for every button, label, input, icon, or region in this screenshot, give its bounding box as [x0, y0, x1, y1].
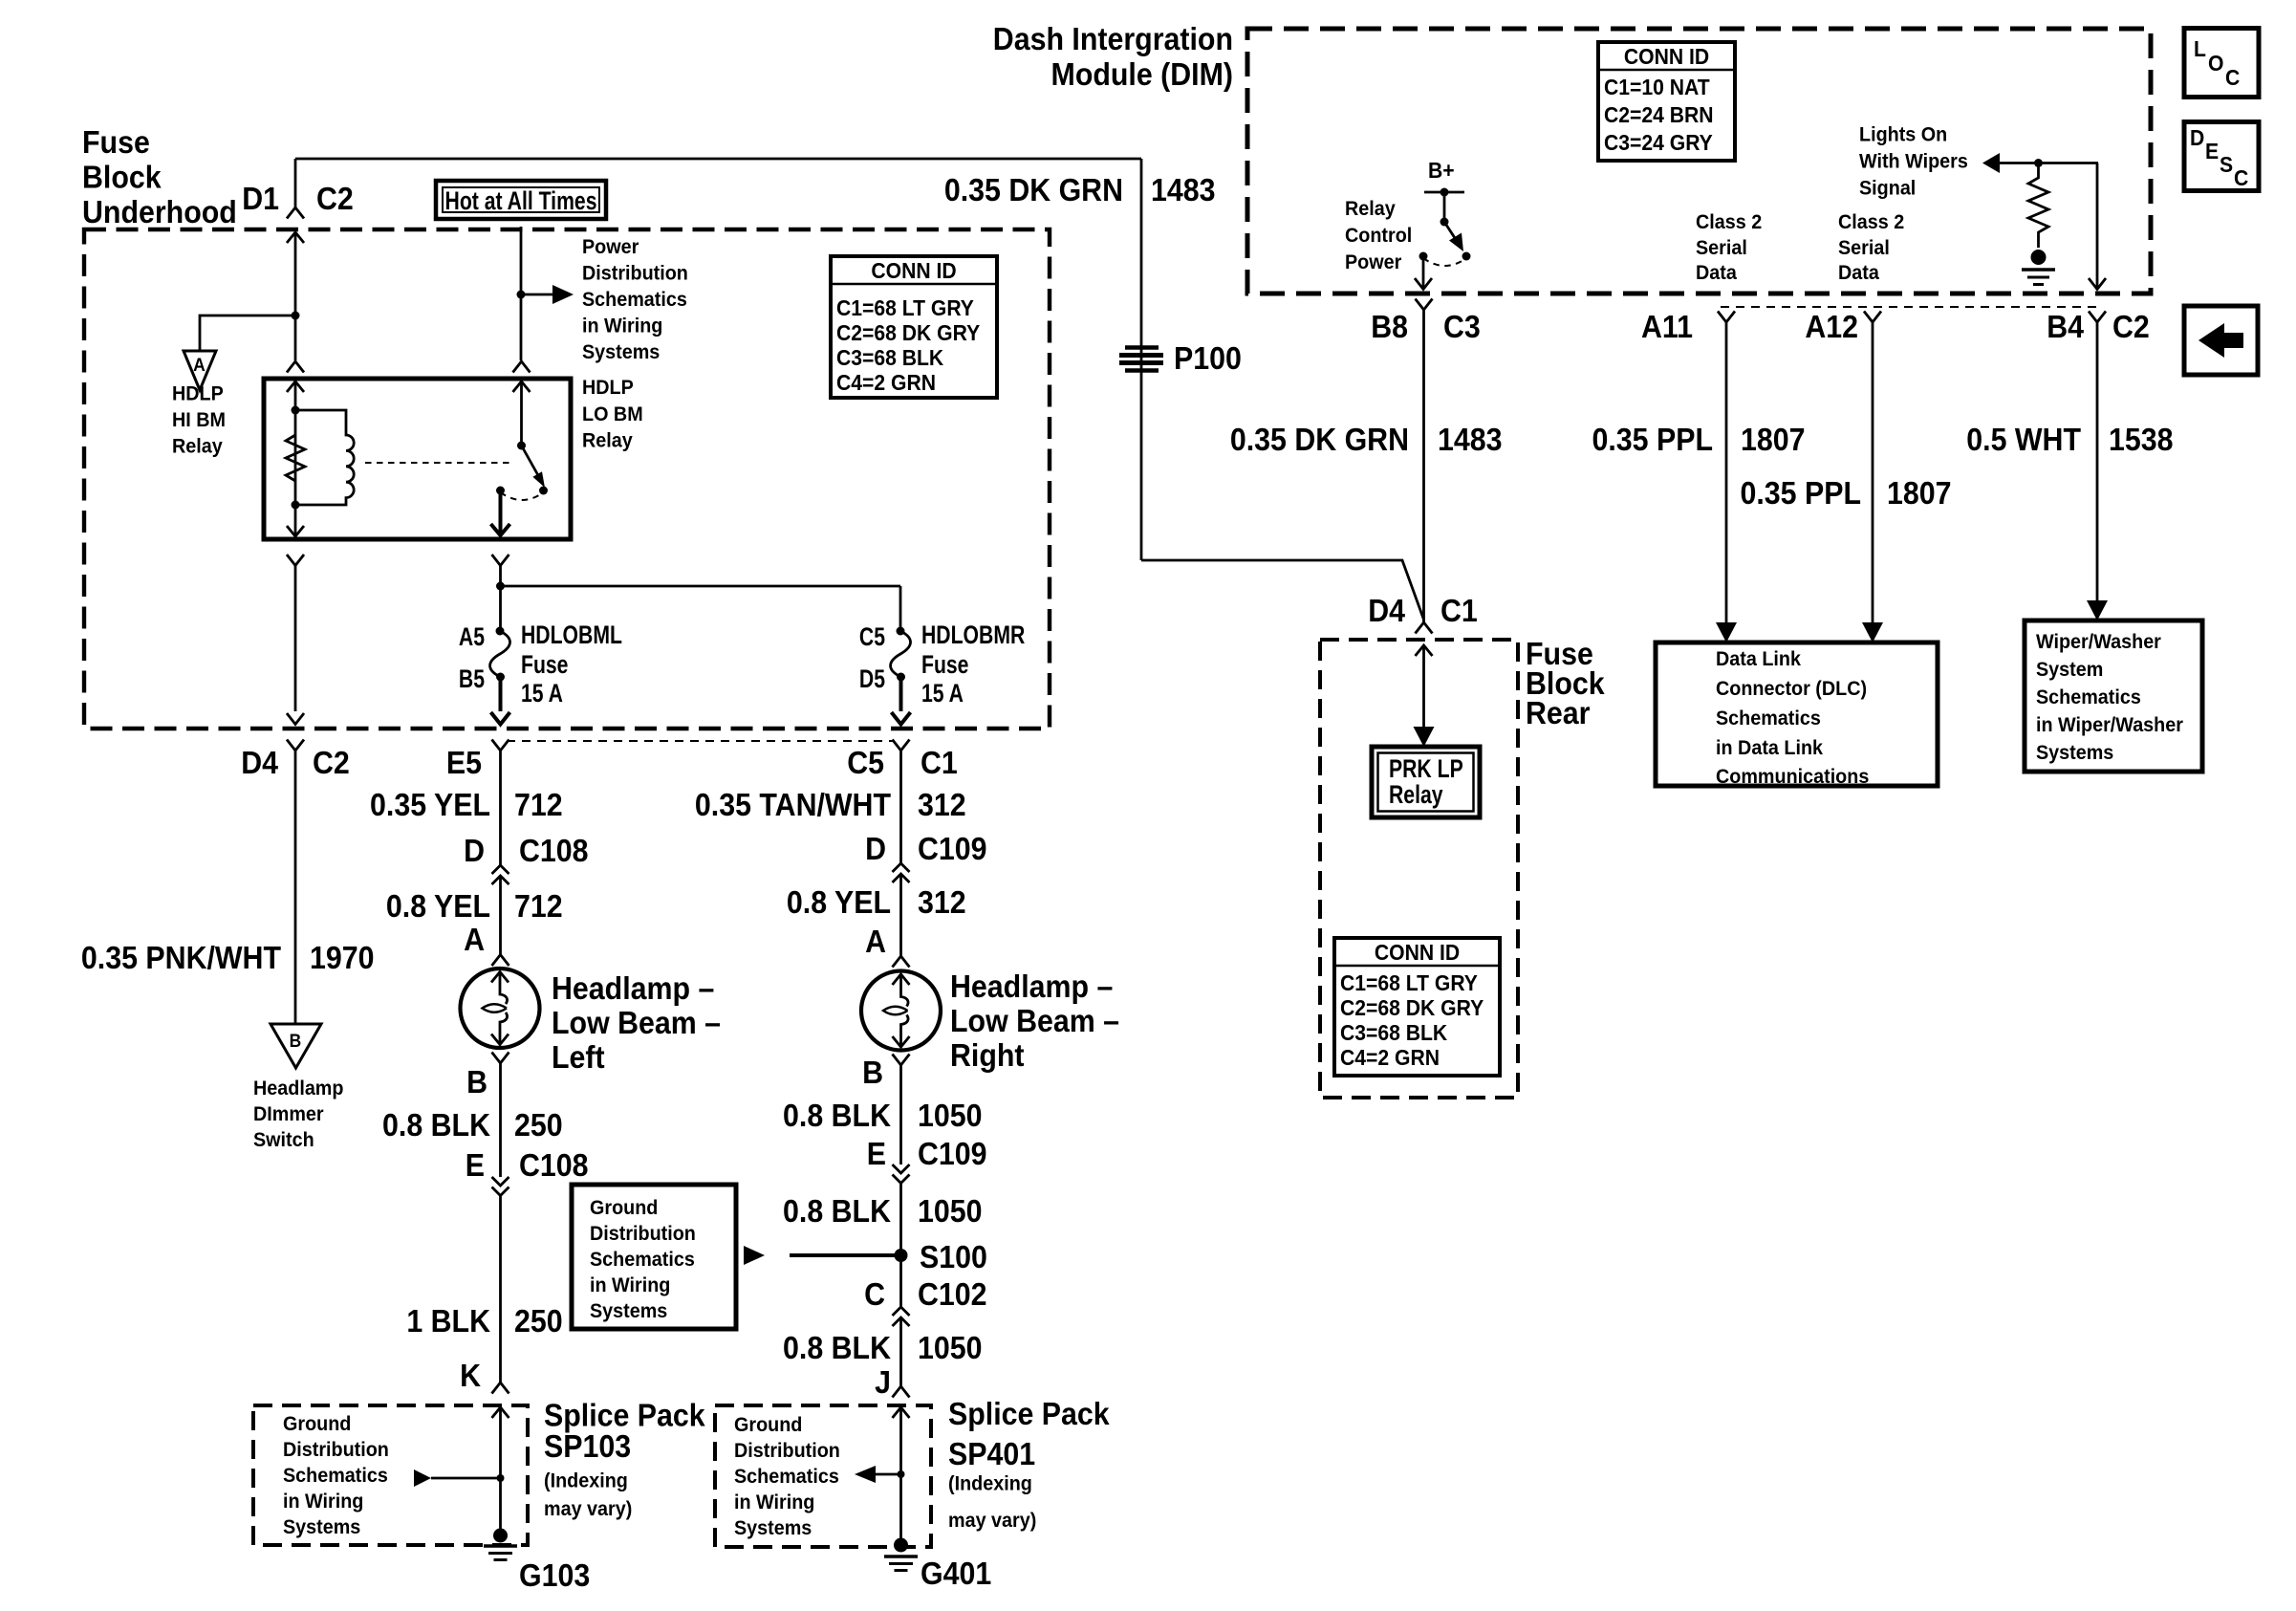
pin label C3 — [1443, 309, 1481, 344]
dashed linkage relay — [365, 462, 514, 464]
svg-text:Schematics: Schematics — [582, 288, 687, 311]
svg-text:1050: 1050 — [918, 1330, 983, 1365]
svg-text:0.8 BLK: 0.8 BLK — [783, 1098, 891, 1133]
svg-text:Serial: Serial — [1696, 236, 1747, 259]
pin label B left lamp — [466, 1064, 487, 1099]
svg-text:D5: D5 — [859, 665, 885, 694]
pin label C1 bottom — [921, 745, 958, 780]
svg-text:C1=10 NAT: C1=10 NAT — [1604, 75, 1710, 99]
pin label A11 — [1641, 309, 1693, 344]
svg-text:B8: B8 — [1371, 309, 1408, 344]
chevron below relay output — [492, 555, 509, 566]
arrow exit B4 — [2089, 278, 2106, 290]
svg-text:Splice Pack: Splice Pack — [948, 1396, 1110, 1431]
svg-text:Distribution: Distribution — [582, 262, 688, 285]
svg-text:1050: 1050 — [918, 1193, 983, 1229]
svg-text:Fuse: Fuse — [921, 651, 968, 680]
label G103 — [519, 1557, 590, 1593]
svg-text:1807: 1807 — [1741, 422, 1806, 457]
svg-text:C102: C102 — [918, 1276, 987, 1312]
svg-text:C1=68 LT GRY: C1=68 LT GRY — [836, 295, 974, 320]
pin label C2 — [316, 181, 354, 216]
svg-text:Right: Right — [950, 1037, 1025, 1073]
arrow exit C5 — [892, 712, 911, 725]
svg-text:Distribution: Distribution — [734, 1439, 840, 1462]
wire SP103 internal — [499, 1407, 502, 1535]
svg-text:1050: 1050 — [918, 1098, 983, 1133]
svg-text:in Wiring: in Wiring — [582, 315, 662, 337]
svg-text:1807: 1807 — [1887, 475, 1952, 511]
pin label E left — [466, 1147, 485, 1183]
svg-text:D4: D4 — [241, 745, 278, 780]
svg-text:Schematics: Schematics — [283, 1464, 388, 1487]
connector line C1 thin dashed — [507, 740, 895, 742]
svg-text:K: K — [460, 1358, 481, 1393]
svg-text:Fuse: Fuse — [521, 651, 568, 680]
Hot at All Times box — [436, 181, 606, 219]
svg-text:Ground: Ground — [734, 1413, 802, 1436]
wire P100 vertical — [1140, 159, 1143, 560]
svg-text:A12: A12 — [1805, 309, 1858, 344]
svg-text:C109: C109 — [918, 1136, 987, 1171]
arrow ground distribution SP401 — [855, 1466, 901, 1483]
svg-text:Relay: Relay — [1389, 781, 1443, 810]
svg-text:Lights On: Lights On — [1859, 123, 1947, 146]
resistor wiper signal — [2028, 163, 2048, 249]
junction dot relay top — [292, 406, 300, 415]
triangle ref B — [271, 1024, 321, 1068]
svg-text:E: E — [466, 1147, 485, 1183]
svg-text:Distribution: Distribution — [283, 1438, 389, 1461]
svg-text:250: 250 — [514, 1107, 563, 1143]
svg-text:HDLP: HDLP — [172, 382, 224, 405]
headlamp low beam right — [861, 971, 941, 1051]
svg-text:C2: C2 — [2112, 309, 2150, 344]
label 0.35 PNK/WHT 1970 — [81, 940, 375, 975]
svg-text:0.8 BLK: 0.8 BLK — [382, 1107, 490, 1143]
svg-text:Low Beam –: Low Beam – — [552, 1005, 721, 1040]
svg-text:CONN ID: CONN ID — [1624, 44, 1709, 69]
svg-text:Power: Power — [1345, 250, 1401, 273]
junction dot SP401 — [898, 1470, 905, 1478]
label 0.8 BLK 1050 first — [783, 1098, 982, 1133]
pin label A12 — [1805, 309, 1858, 344]
pin label C5 bottom — [847, 745, 884, 780]
pass-through P100 — [1119, 348, 1163, 371]
svg-text:E: E — [867, 1136, 886, 1171]
svg-text:Module (DIM): Module (DIM) — [1051, 56, 1233, 92]
svg-text:in Wiring: in Wiring — [734, 1491, 814, 1513]
label P100 — [1174, 340, 1242, 376]
label Ground Distribution SP103 — [283, 1412, 389, 1538]
junction dot relay bottom — [292, 501, 300, 510]
svg-text:HDLOBML: HDLOBML — [521, 621, 622, 650]
connector C108 double chevron up — [492, 865, 509, 884]
Dash Integration Module dashed box — [1247, 29, 2151, 294]
svg-text:Serial: Serial — [1838, 236, 1890, 259]
arrow relay output — [491, 524, 510, 535]
wire to power distribution arrow — [521, 294, 552, 296]
svg-text:Schematics: Schematics — [1716, 707, 1821, 729]
wire below right fuse — [899, 677, 903, 711]
arrow relay switch pin — [513, 381, 531, 392]
svg-text:Ground: Ground — [590, 1196, 658, 1219]
label 0.35 PPL 1807 A11 — [1592, 422, 1806, 457]
box left arrow — [2184, 306, 2258, 375]
connector chevron B8/C3 — [1416, 299, 1433, 311]
relay contact dot left — [496, 487, 505, 495]
wire P100 to D4/C1 — [1141, 560, 1424, 620]
svg-text:Left: Left — [552, 1039, 605, 1075]
label 0.5 WHT 1538 — [1966, 422, 2173, 457]
svg-text:Power: Power — [582, 235, 639, 258]
connector chevron B4/C2 — [2089, 312, 2106, 323]
svg-text:C1: C1 — [921, 745, 958, 780]
headlamp low beam left — [461, 969, 540, 1048]
wire C108 to splice SP103 — [499, 1196, 502, 1383]
wire SP401 internal — [899, 1407, 902, 1545]
label S100 — [920, 1239, 987, 1274]
arrow exit B8 — [1415, 278, 1432, 290]
label Fuse Block Rear — [1526, 636, 1605, 730]
svg-text:P100: P100 — [1174, 340, 1242, 376]
pin label D left — [464, 833, 485, 868]
wire C102 to splice SP401 — [899, 1317, 902, 1386]
svg-text:C3=68 BLK: C3=68 BLK — [836, 345, 943, 370]
svg-text:1483: 1483 — [1438, 422, 1503, 457]
svg-text:C2: C2 — [316, 181, 354, 216]
label 0.35 PPL 1807 A12 — [1741, 475, 1952, 511]
connector label C108 upper — [519, 833, 589, 868]
label Lights On With Wipers Signal — [1859, 123, 1968, 200]
relay control switch stem — [1440, 192, 1449, 227]
box PRK LP Relay — [1372, 747, 1480, 817]
label G401 — [921, 1556, 991, 1591]
wire relay output to fuses — [499, 566, 502, 631]
svg-text:SP103: SP103 — [544, 1428, 631, 1464]
svg-text:Hot at All Times: Hot at All Times — [445, 187, 597, 216]
junction dot wiper signal — [2034, 159, 2043, 167]
pin label B4 — [2047, 309, 2084, 344]
svg-text:Low Beam –: Low Beam – — [950, 1003, 1119, 1038]
connector line DLC thin dashed — [1721, 306, 2097, 308]
svg-text:Fuse: Fuse — [82, 124, 150, 160]
connector label C109 lower — [918, 1136, 987, 1171]
svg-text:E: E — [2205, 139, 2219, 163]
relay coil-side vertical wire — [294, 381, 297, 535]
arrow ground distribution SP103 — [414, 1469, 501, 1487]
wire to PRK LP relay — [1414, 645, 1435, 747]
svg-text:in Data Link: in Data Link — [1716, 736, 1824, 759]
svg-text:15 A: 15 A — [921, 680, 964, 708]
svg-text:B4: B4 — [2047, 309, 2084, 344]
wire C108 to lamp — [499, 876, 502, 954]
svg-text:E5: E5 — [446, 745, 482, 780]
chevron above relay switch pin — [513, 361, 531, 373]
svg-text:Switch: Switch — [253, 1128, 314, 1151]
pin label K — [460, 1358, 481, 1393]
svg-text:C2=68 DK GRY: C2=68 DK GRY — [836, 320, 980, 345]
CONN ID table fuse block rear — [1334, 938, 1500, 1076]
CONN ID table fuse block underhood — [831, 256, 997, 398]
label HDLOBML Fuse 15 A — [521, 621, 622, 708]
svg-text:Data: Data — [1838, 261, 1879, 284]
wire from Hot at All Times to relay — [520, 227, 523, 360]
svg-text:SP401: SP401 — [948, 1436, 1035, 1471]
wire D4 to triangle B — [294, 751, 297, 1024]
svg-text:D: D — [865, 831, 886, 866]
connector chevron E5 — [492, 740, 509, 751]
svg-text:C5: C5 — [847, 745, 884, 780]
label Power Distribution Schematics in Wiring Systems — [582, 235, 688, 363]
box LOC — [2184, 29, 2259, 98]
svg-text:Distribution: Distribution — [590, 1222, 696, 1245]
arrow into fuse block at D1 — [287, 232, 304, 243]
ground G401 — [884, 1538, 918, 1571]
box Wiper/Washer Systems — [2025, 620, 2202, 772]
svg-text:712: 712 — [514, 787, 563, 822]
svg-text:0.35 PPL: 0.35 PPL — [1741, 475, 1861, 511]
svg-text:HDLP: HDLP — [582, 376, 634, 399]
label Headlamp Low Beam Right — [950, 969, 1119, 1073]
svg-text:in Wiper/Washer: in Wiper/Washer — [2036, 713, 2183, 736]
connector chevron D4/C1 — [1416, 622, 1433, 634]
label Relay Control Power — [1345, 197, 1412, 273]
svg-text:System: System — [2036, 658, 2103, 681]
svg-text:S100: S100 — [920, 1239, 987, 1274]
svg-text:C3=24 GRY: C3=24 GRY — [1604, 130, 1713, 155]
svg-text:L: L — [2194, 36, 2206, 61]
relay HDLP LO BM box — [264, 379, 571, 539]
ground G103 — [484, 1529, 517, 1560]
svg-text:A: A — [464, 922, 485, 957]
pin label D5 — [859, 665, 885, 694]
svg-text:J: J — [875, 1364, 891, 1400]
svg-text:1 BLK: 1 BLK — [406, 1303, 490, 1339]
wire B4 inside DIM — [2096, 163, 2099, 289]
label Headlamp Low Beam Left — [552, 970, 721, 1075]
chevron above relay coil pin — [287, 361, 304, 373]
label B+ — [1428, 158, 1455, 183]
wire lamp right to C109 — [899, 1065, 902, 1165]
svg-text:Schematics: Schematics — [734, 1465, 839, 1488]
dashed throw arc relay — [501, 492, 544, 500]
svg-text:1483: 1483 — [1151, 172, 1216, 207]
pin label B right lamp — [862, 1055, 883, 1090]
fuse HDLOBML — [490, 627, 510, 682]
pin label D1 — [242, 181, 279, 216]
label 0.8 BLK 1050 third — [783, 1330, 982, 1365]
wire to triangle A — [200, 316, 295, 351]
svg-text:Systems: Systems — [734, 1516, 812, 1539]
wire D1 to relay — [294, 233, 297, 360]
arrow exit D4 — [287, 713, 304, 725]
junction dot HI BM branch — [292, 312, 300, 320]
arrow ground distribution S100 — [744, 1246, 901, 1265]
svg-text:Data: Data — [1696, 261, 1737, 284]
connector C102 double chevron up — [893, 1307, 910, 1326]
wire A11 — [1716, 322, 1737, 642]
svg-text:Systems: Systems — [2036, 741, 2113, 764]
fuse HDLOBMR — [891, 627, 911, 682]
pin label C2 right — [2112, 309, 2150, 344]
svg-text:may vary): may vary) — [544, 1497, 632, 1520]
junction dot SP103 — [497, 1474, 505, 1482]
connector chevron C5/C1 — [893, 740, 910, 751]
svg-text:With Wipers: With Wipers — [1859, 150, 1968, 173]
label Class 2 Serial Data A12 — [1838, 210, 1904, 284]
pin label C5 — [859, 623, 885, 652]
label Fuse Block Underhood — [82, 124, 237, 229]
arrow lights on with wipers — [1982, 153, 2098, 173]
arrow power distribution — [552, 285, 574, 304]
svg-text:C: C — [2234, 165, 2248, 190]
svg-text:G401: G401 — [921, 1556, 991, 1591]
svg-text:B: B — [862, 1055, 883, 1090]
label HDLOBMR Fuse 15 A — [921, 621, 1025, 708]
label 1 BLK 250 — [406, 1303, 562, 1339]
arrow exit E5 — [491, 712, 510, 725]
wire C109 to S100 — [899, 1184, 902, 1308]
svg-text:Rear: Rear — [1526, 695, 1590, 730]
svg-text:712: 712 — [514, 888, 563, 924]
svg-text:0.35 TAN/WHT: 0.35 TAN/WHT — [695, 787, 892, 822]
pin label B8 — [1371, 309, 1408, 344]
arrow into fuse block rear — [1416, 645, 1433, 656]
svg-text:D4: D4 — [1368, 593, 1405, 628]
triangle ref A — [184, 351, 216, 390]
svg-text:B: B — [466, 1064, 487, 1099]
svg-text:may vary): may vary) — [948, 1509, 1036, 1532]
svg-text:A: A — [865, 924, 886, 959]
wire relay coil to D4 exit — [294, 566, 297, 712]
label Splice Pack SP401 — [948, 1396, 1110, 1532]
pin label E right — [867, 1136, 886, 1171]
wire right fuse drop — [899, 586, 902, 630]
arrow into SP401 — [893, 1407, 910, 1418]
svg-text:C2: C2 — [313, 745, 350, 780]
junction dot fuse feed — [496, 582, 505, 591]
pin label D4 right — [1368, 593, 1405, 628]
relay output wire — [499, 490, 503, 533]
connector chevron J — [893, 1386, 910, 1398]
wire fuse feed horizontal — [501, 585, 901, 588]
svg-text:D: D — [2190, 125, 2204, 150]
svg-text:Connector (DLC): Connector (DLC) — [1716, 677, 1867, 700]
label HDLP HI BM Relay — [172, 382, 226, 458]
svg-text:Ground: Ground — [283, 1412, 351, 1435]
label 0.8 YEL 712 — [386, 888, 563, 924]
ground DIM internal — [2022, 250, 2055, 285]
svg-text:A5: A5 — [459, 623, 485, 652]
svg-text:C108: C108 — [519, 1147, 589, 1183]
Fuse Block Rear dashed box — [1320, 640, 1518, 1098]
wire A12 — [1862, 322, 1883, 642]
relay switch blade — [522, 446, 546, 488]
svg-text:CONN ID: CONN ID — [871, 258, 956, 283]
Fuse Block Underhood dashed box — [84, 229, 1050, 729]
label Ground Distribution SP401 — [734, 1413, 840, 1539]
svg-text:Headlamp: Headlamp — [253, 1077, 343, 1099]
svg-text:Headlamp –: Headlamp – — [950, 969, 1113, 1004]
relay control switch blade — [1444, 222, 1463, 251]
label 0.8 BLK 250 — [382, 1107, 563, 1143]
wire below left fuse — [499, 677, 503, 711]
label 0.8 YEL 312 — [787, 884, 966, 920]
svg-text:C5: C5 — [859, 623, 885, 652]
wire C5 to lamp right — [899, 751, 902, 863]
pin label A5 — [459, 623, 485, 652]
relay switch common wire — [520, 381, 523, 446]
svg-text:Schematics: Schematics — [590, 1248, 695, 1271]
svg-text:0.35 DK GRN: 0.35 DK GRN — [944, 172, 1123, 207]
connector chevron A11 — [1718, 312, 1735, 323]
pin label E5 — [446, 745, 482, 780]
splice dot S100 — [895, 1249, 908, 1262]
svg-text:Class 2: Class 2 — [1838, 210, 1904, 233]
label 0.35 DK GRN 1483 mid — [1230, 422, 1503, 457]
svg-text:(Indexing: (Indexing — [544, 1469, 628, 1492]
wire D1 vertical stub — [294, 159, 297, 207]
splice pack SP103 dashed box — [253, 1405, 528, 1545]
svg-text:in Wiring: in Wiring — [283, 1490, 363, 1513]
label Splice Pack SP103 — [544, 1397, 705, 1520]
wire relay control to B8 — [1422, 256, 1425, 288]
wire top horizontal 0.35 DK GRN — [295, 158, 1141, 161]
svg-text:C4=2 GRN: C4=2 GRN — [836, 370, 936, 395]
svg-text:C108: C108 — [519, 833, 589, 868]
svg-text:C: C — [864, 1276, 885, 1312]
svg-text:250: 250 — [514, 1303, 563, 1339]
svg-text:312: 312 — [918, 884, 966, 920]
label 0.35 DK GRN 1483 top — [944, 172, 1216, 207]
svg-text:Schematics: Schematics — [2036, 686, 2141, 708]
relay control contact dots — [1419, 252, 1471, 261]
chevron below left lamp — [492, 1053, 509, 1064]
pin label D4 — [241, 745, 278, 780]
wire C109 to lamp right — [899, 874, 902, 956]
relay contact dot right — [539, 487, 548, 495]
label HDLP LO BM Relay — [582, 376, 643, 452]
arrow relay coil pin — [287, 381, 304, 392]
svg-text:D: D — [464, 833, 485, 868]
connector C109 double chevron down — [893, 1165, 910, 1184]
svg-text:B5: B5 — [459, 665, 485, 694]
svg-text:(Indexing: (Indexing — [948, 1472, 1032, 1495]
svg-text:Systems: Systems — [582, 340, 660, 363]
svg-text:Communications: Communications — [1716, 765, 1869, 788]
svg-text:C4=2 GRN: C4=2 GRN — [1340, 1045, 1440, 1070]
svg-text:15 A: 15 A — [521, 680, 563, 708]
pin label A right lamp — [865, 924, 886, 959]
svg-text:0.35 PPL: 0.35 PPL — [1592, 422, 1713, 457]
chevron below relay coil — [287, 555, 304, 566]
svg-text:0.8 BLK: 0.8 BLK — [783, 1193, 891, 1229]
pin label C right — [864, 1276, 885, 1312]
svg-text:C: C — [2225, 65, 2240, 90]
coil relay — [295, 410, 354, 505]
label Class 2 Serial Data A11 — [1696, 210, 1762, 284]
wire E5 to lamp left — [499, 751, 502, 865]
svg-text:0.8 BLK: 0.8 BLK — [783, 1330, 891, 1365]
wire lamp left to C108 — [499, 1063, 502, 1177]
svg-text:Systems: Systems — [283, 1515, 360, 1538]
arrow into SP103 — [492, 1407, 509, 1418]
arrow relay coil bottom — [287, 526, 304, 536]
connector chevron A12 — [1864, 312, 1881, 323]
pin label J — [875, 1364, 891, 1400]
svg-text:0.8 YEL: 0.8 YEL — [386, 888, 490, 924]
